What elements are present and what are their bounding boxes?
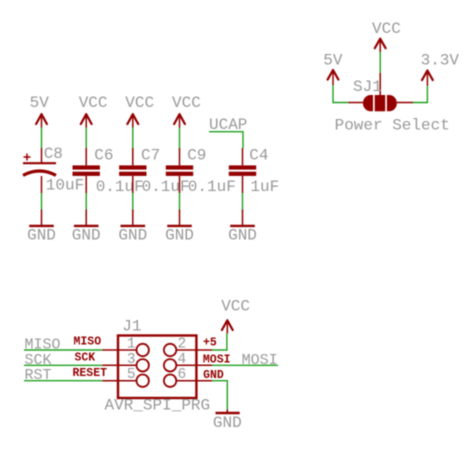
wire RST	[24, 367, 102, 384]
wire C9 to GND	[179, 193, 181, 210]
pin C6 top	[85, 148, 87, 165]
wire MOSI	[212, 352, 278, 369]
svg-text:VCC: VCC	[221, 297, 250, 315]
supply 3.3V (power select)	[421, 52, 460, 86]
svg-text:VCC: VCC	[79, 94, 108, 112]
svg-text:J1: J1	[122, 318, 141, 336]
capacitor C7	[119, 147, 190, 197]
wire C6 to GND	[85, 193, 87, 210]
ground GND (C6)	[72, 210, 101, 245]
pin SJ1 left	[348, 102, 363, 104]
svg-text:AVR_SPI_PRG: AVR_SPI_PRG	[105, 397, 211, 415]
svg-text:6: 6	[178, 367, 187, 383]
svg-text:+5: +5	[203, 336, 217, 349]
solder jumper SJ1	[335, 78, 450, 135]
pin 6	[164, 367, 224, 387]
svg-text:GND: GND	[118, 227, 147, 245]
pin C7 bottom	[132, 176, 134, 193]
wire VCC to C7	[132, 128, 134, 149]
capacitor C8	[23, 145, 84, 195]
svg-text:GND: GND	[72, 227, 101, 245]
svg-text:RST: RST	[25, 367, 52, 384]
pin 2	[164, 336, 217, 356]
supply VCC (J1)	[221, 297, 250, 333]
ground GND (C4)	[228, 210, 257, 245]
svg-text:1: 1	[127, 337, 136, 353]
svg-text:2: 2	[178, 337, 187, 353]
svg-text:0.1uF: 0.1uF	[96, 178, 144, 196]
ground GND (C8)	[27, 210, 56, 245]
svg-text:0.1uF: 0.1uF	[188, 178, 236, 196]
svg-text:MISO: MISO	[74, 336, 102, 349]
svg-text:GND: GND	[228, 227, 257, 245]
wire SCK	[24, 352, 102, 369]
ground GND (C9)	[165, 210, 194, 245]
pin C9 bottom	[179, 176, 181, 193]
wire C7 to GND	[132, 193, 134, 210]
supply VCC (C9 branch)	[172, 94, 201, 128]
supply 5V (power select)	[323, 52, 343, 86]
capacitor C6	[73, 147, 144, 197]
supply 5V (C8 branch)	[30, 94, 50, 128]
pin 1	[74, 336, 149, 357]
svg-text:3.3V: 3.3V	[421, 52, 460, 70]
ground GND (J1)	[213, 410, 242, 433]
wire 5V to SJ1	[333, 85, 348, 103]
svg-text:Power Select: Power Select	[335, 117, 450, 135]
wire C8 to GND	[41, 193, 43, 210]
svg-text:10uF: 10uF	[46, 177, 84, 195]
wire VCC to C6	[85, 128, 87, 149]
svg-text:MOSI: MOSI	[242, 352, 278, 369]
svg-text:C9: C9	[187, 147, 206, 165]
svg-text:4: 4	[178, 352, 187, 368]
pin C7 top	[132, 148, 134, 165]
pin SJ1 right	[397, 102, 413, 104]
svg-text:5V: 5V	[323, 52, 343, 70]
wire 5V to C8	[41, 128, 43, 149]
wire C4 to GND	[242, 193, 244, 210]
node UCAP label	[209, 116, 247, 134]
pin 3	[75, 351, 149, 371]
wire +5 to VCC	[212, 334, 227, 351]
pin C8 bottom	[41, 176, 43, 193]
connector J1	[105, 318, 211, 415]
svg-text:VCC: VCC	[172, 94, 201, 112]
svg-text:0.1uF: 0.1uF	[142, 178, 190, 196]
pin C6 bottom	[85, 176, 87, 193]
svg-text:5V: 5V	[30, 94, 50, 112]
capacitor C4	[229, 147, 279, 197]
svg-text:SJ1: SJ1	[353, 78, 382, 96]
svg-text:5: 5	[127, 367, 136, 383]
wire UCAP to C4	[209, 132, 243, 148]
svg-text:GND: GND	[203, 369, 224, 382]
svg-text:1uF: 1uF	[250, 178, 279, 196]
svg-text:3: 3	[127, 352, 136, 368]
svg-text:SCK: SCK	[75, 351, 96, 364]
capacitor C9	[166, 147, 236, 197]
pin 5	[73, 367, 149, 387]
svg-text:C7: C7	[141, 147, 160, 165]
wire 3.3V to SJ1	[413, 86, 427, 103]
svg-text:C8: C8	[44, 145, 63, 163]
pin C4 bottom	[242, 176, 244, 193]
wire VCC to C9	[179, 128, 181, 149]
wire GND (J1)	[212, 381, 227, 410]
svg-text:C6: C6	[94, 147, 113, 165]
svg-text:C4: C4	[249, 147, 268, 165]
supply VCC (power select)	[372, 20, 401, 52]
svg-text:VCC: VCC	[125, 94, 154, 112]
pin C9 top	[179, 148, 181, 165]
wire MISO	[24, 337, 102, 354]
svg-text:RESET: RESET	[73, 367, 108, 380]
ground GND (C7)	[118, 210, 147, 245]
wire VCC to SJ1	[379, 52, 381, 73]
pin SJ1 top	[379, 73, 381, 95]
supply VCC (C6 branch)	[79, 94, 108, 128]
pin C8 top	[41, 148, 43, 164]
pin 4	[164, 352, 231, 372]
svg-text:GND: GND	[213, 414, 242, 432]
pin C4 top	[242, 148, 244, 165]
svg-text:GND: GND	[165, 227, 194, 245]
svg-text:VCC: VCC	[372, 20, 401, 38]
supply VCC (C7 branch)	[125, 94, 154, 128]
svg-text:MOSI: MOSI	[203, 354, 231, 367]
svg-text:GND: GND	[27, 227, 56, 245]
